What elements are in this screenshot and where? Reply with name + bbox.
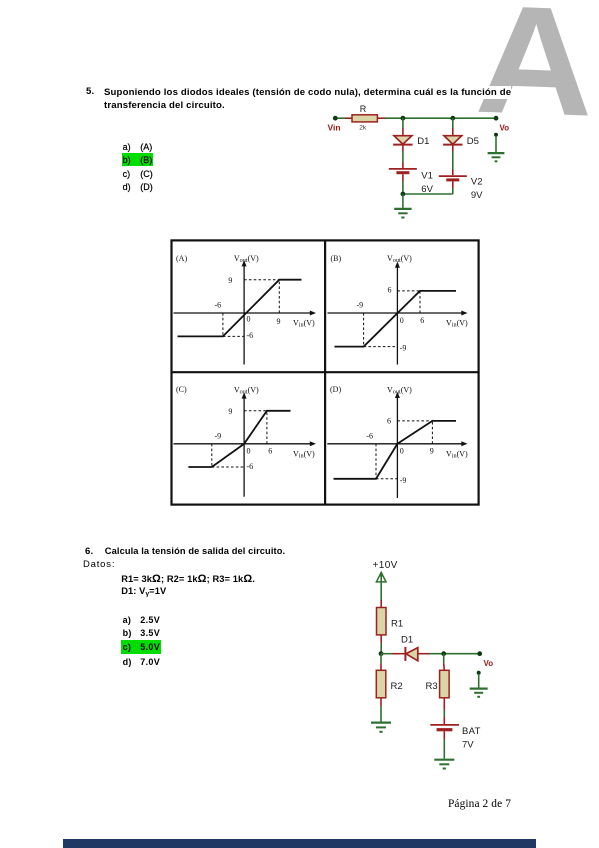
svg-text:Vout(V): Vout(V) [387, 254, 412, 264]
svg-text:-9: -9 [400, 344, 407, 353]
svg-text:R2: R2 [391, 681, 403, 692]
svg-text:0: 0 [400, 316, 404, 325]
svg-text:2k: 2k [359, 125, 367, 132]
svg-text:0: 0 [400, 447, 404, 456]
svg-text:+10V: +10V [373, 560, 398, 571]
svg-text:-9: -9 [400, 476, 407, 485]
svg-text:(A): (A) [176, 254, 187, 263]
svg-text:Vin(V): Vin(V) [293, 449, 315, 459]
svg-text:6: 6 [387, 417, 391, 426]
svg-text:Vin: Vin [328, 123, 341, 133]
svg-text:R: R [360, 104, 367, 114]
svg-text:6: 6 [388, 286, 392, 295]
svg-text:9: 9 [277, 317, 281, 326]
svg-text:Vo: Vo [500, 123, 510, 132]
svg-text:D1: D1 [401, 635, 413, 646]
svg-text:-6: -6 [366, 432, 373, 441]
svg-text:-6: -6 [247, 331, 254, 340]
svg-text:D1: D1 [417, 136, 429, 147]
svg-text:(C): (C) [176, 385, 187, 394]
svg-text:V2: V2 [471, 177, 483, 188]
svg-text:Vin(V): Vin(V) [293, 319, 315, 329]
svg-text:Vout(V): Vout(V) [234, 254, 259, 264]
svg-text:6: 6 [268, 447, 272, 456]
svg-text:Vout(V): Vout(V) [387, 385, 412, 395]
svg-text:(D): (D) [330, 385, 341, 394]
svg-text:-6: -6 [247, 462, 254, 471]
svg-text:6V: 6V [421, 184, 433, 195]
svg-text:0: 0 [247, 447, 251, 456]
svg-text:V1: V1 [421, 171, 433, 182]
svg-text:D5: D5 [467, 136, 479, 147]
svg-text:Vout(V): Vout(V) [234, 385, 259, 395]
svg-text:R3: R3 [426, 681, 438, 692]
svg-text:Vin(V): Vin(V) [446, 319, 468, 329]
svg-text:9V: 9V [471, 190, 483, 201]
svg-text:-9: -9 [215, 432, 222, 441]
svg-text:-9: -9 [357, 301, 364, 310]
svg-text:Vin(V): Vin(V) [446, 449, 468, 459]
svg-text:0: 0 [247, 315, 251, 324]
svg-text:9: 9 [228, 407, 232, 416]
svg-text:6: 6 [420, 316, 424, 325]
svg-text:R1: R1 [391, 619, 403, 630]
svg-text:(B): (B) [331, 254, 342, 263]
svg-text:9: 9 [430, 447, 434, 456]
svg-text:Vo: Vo [484, 659, 494, 668]
svg-text:BAT: BAT [462, 726, 481, 737]
svg-text:-6: -6 [215, 301, 222, 310]
svg-text:7V: 7V [462, 740, 474, 751]
svg-text:9: 9 [228, 276, 232, 285]
